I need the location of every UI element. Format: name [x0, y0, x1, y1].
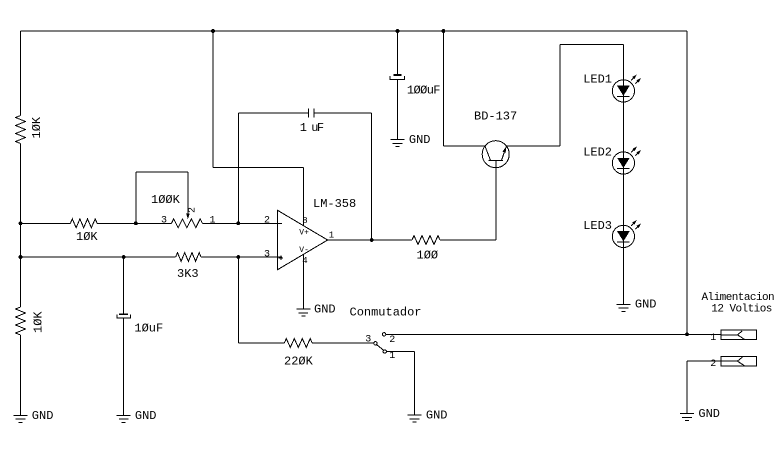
svg-text:2: 2 — [188, 207, 199, 213]
op-amp plus mark at pin 3 — [279, 256, 283, 260]
wire LED3 to ground — [622, 248, 624, 305]
ground GND6 under 100uF — [391, 133, 431, 147]
node junction 10uF branch — [122, 255, 126, 259]
svg-text:GND: GND — [426, 409, 448, 423]
svg-text:3K3: 3K3 — [177, 267, 199, 281]
svg-text:LED1: LED1 — [583, 72, 612, 86]
svg-text:12 Voltios: 12 Voltios — [711, 304, 772, 316]
svg-text:4: 4 — [302, 256, 307, 266]
svg-text:Conmutador: Conmutador — [350, 306, 422, 320]
wire 1uF feedback branch — [238, 113, 371, 240]
wire connector pin2 to ground — [687, 361, 721, 413]
svg-text:1ØØuF: 1ØØuF — [407, 83, 440, 97]
svg-text:1 uF: 1 uF — [300, 121, 324, 135]
ground GND7 under LEDs — [616, 298, 656, 312]
node junction top rail / 100uF — [396, 29, 400, 33]
svg-text:LM-358: LM-358 — [313, 197, 356, 211]
wire switch throw2 to supply connector pin1 — [386, 333, 721, 335]
svg-text:GND: GND — [409, 133, 431, 147]
wire 100uF branch — [397, 31, 399, 74]
svg-text:3: 3 — [365, 335, 371, 346]
node junction output / 1uF feedback — [370, 238, 374, 242]
potentiometer 100K body — [151, 193, 202, 228]
resistor 100 — [412, 236, 440, 263]
ground GND5 under op-amp — [296, 302, 335, 316]
wire left vertical bus — [20, 31, 22, 415]
wire switch throw1 to ground — [387, 352, 415, 416]
node junction top rail / op-amp supply — [211, 29, 215, 33]
capacitor 10uF (polarized) — [117, 313, 163, 335]
svg-text:LED3: LED3 — [583, 219, 612, 233]
wire right vertical rail — [686, 31, 688, 334]
wire input line 2 (to pin 3) — [21, 256, 283, 258]
resistor 10K series — [70, 219, 98, 244]
svg-text:1: 1 — [710, 333, 716, 344]
svg-text:V+: V+ — [299, 229, 309, 238]
resistor 3K3 — [176, 253, 201, 281]
node junction top rail / collector — [442, 29, 446, 33]
connector pin 2 (faston) — [721, 357, 756, 366]
wire LED2 to LED3 — [622, 174, 624, 225]
capacitor 1uF — [300, 109, 324, 136]
node junction left bus / input line 2 — [19, 255, 23, 259]
svg-text:GND: GND — [32, 409, 54, 423]
svg-text:GND: GND — [635, 298, 657, 312]
resistor 220K — [284, 339, 314, 369]
wire transistor emitter to LED chain — [507, 44, 624, 145]
ground GND2 under 10uF — [117, 409, 157, 423]
capacitor 100uF (polarized) — [390, 74, 440, 97]
svg-text:BD-137: BD-137 — [474, 110, 517, 124]
svg-text:22ØK: 22ØK — [284, 355, 314, 369]
switch Conmutador SPDT — [374, 333, 387, 354]
node junction left bus / input line 1 — [19, 221, 23, 225]
wire LED1 to LED2 — [622, 102, 624, 152]
wire op-amp output — [328, 160, 496, 240]
wire transistor base lead — [495, 160, 497, 240]
node junction pot pin3 on input line 1 — [134, 221, 138, 225]
LED3 — [612, 220, 641, 248]
svg-text:3: 3 — [161, 215, 167, 226]
op-amp U1 LM-358 — [278, 210, 328, 309]
node junction 1uF branch on input line 1 — [236, 221, 240, 225]
svg-text:2: 2 — [389, 335, 395, 346]
wire 10uF to ground — [123, 318, 125, 416]
svg-text:1: 1 — [389, 351, 395, 362]
svg-text:V-: V- — [299, 246, 309, 255]
wire transistor collector branch — [443, 31, 485, 146]
svg-text:1ØK: 1ØK — [30, 116, 44, 138]
resistor 10K upper-left vertical — [16, 116, 45, 144]
wire 10uF branch down — [123, 257, 125, 314]
wire input line 1 (to pin 2) — [21, 222, 283, 224]
svg-text:GND: GND — [135, 409, 157, 423]
resistor 10K lower-left vertical — [16, 307, 46, 335]
ground GND4 bottom right — [680, 407, 720, 421]
wire 100uF to ground — [397, 80, 399, 140]
svg-text:1: 1 — [210, 215, 216, 226]
svg-text:Alimentacion: Alimentacion — [702, 292, 775, 304]
node junction right rail / connector pin1 — [685, 332, 689, 336]
node junction 220K branch on input line 2 — [236, 255, 240, 259]
transistor Q1 BD-137 — [482, 141, 509, 168]
wire op-amp supply branch (pin 8) — [213, 31, 303, 226]
svg-text:1ØK: 1ØK — [76, 230, 98, 244]
wire top supply rail — [21, 30, 688, 32]
ground GND1 left bottom — [14, 409, 54, 423]
svg-text:3: 3 — [264, 249, 270, 260]
connector pin 1 (faston) — [721, 330, 756, 339]
wire 220K feedback branch — [238, 257, 373, 343]
potentiometer wiper loop wire — [136, 172, 190, 224]
ground GND3 under switch — [408, 409, 448, 423]
svg-text:1ØK: 1ØK — [32, 311, 46, 333]
svg-text:2: 2 — [264, 216, 270, 227]
LED1 — [612, 75, 641, 103]
svg-text:1ØØK: 1ØØK — [151, 193, 181, 207]
svg-text:1: 1 — [329, 231, 334, 241]
svg-text:GND: GND — [314, 302, 336, 316]
LED2 — [612, 147, 641, 175]
svg-text:1ØØ: 1ØØ — [417, 249, 439, 263]
svg-text:1ØuF: 1ØuF — [134, 322, 163, 336]
svg-text:8: 8 — [302, 216, 307, 226]
svg-text:LED2: LED2 — [583, 146, 612, 160]
svg-text:GND: GND — [698, 407, 720, 421]
